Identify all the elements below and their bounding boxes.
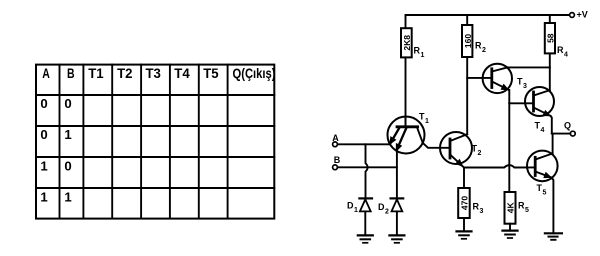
node input A terminal xyxy=(333,142,338,147)
svg-text:R: R xyxy=(475,41,482,51)
wire: R1 to T1 base xyxy=(405,57,407,126)
label T5 xyxy=(537,183,547,197)
ground (D1) xyxy=(358,235,373,242)
svg-text:B: B xyxy=(334,155,341,165)
label R4 xyxy=(557,45,568,59)
ground (R5) xyxy=(503,231,518,238)
wire: R3 to ground xyxy=(463,218,465,231)
svg-text:5: 5 xyxy=(525,207,529,214)
svg-text:5: 5 xyxy=(543,190,547,197)
svg-text:3: 3 xyxy=(523,83,527,90)
diode D2 xyxy=(391,198,404,235)
wire: T2 emitter node to T5 base (hops over R5 wire) xyxy=(464,165,535,167)
svg-text:R: R xyxy=(473,202,480,212)
wire: output Q line xyxy=(552,133,571,135)
truth table row values xyxy=(40,96,71,205)
transistor T3 xyxy=(483,64,512,93)
svg-text:D: D xyxy=(378,202,385,212)
transistor T5 xyxy=(527,151,558,182)
wire: input A to T1 emitter xyxy=(338,143,391,145)
svg-text:T5: T5 xyxy=(203,65,219,81)
wire: T1 second emitter down to D2 xyxy=(396,151,398,199)
svg-text:T1: T1 xyxy=(88,65,104,81)
svg-text:4: 4 xyxy=(541,127,545,134)
label T1 xyxy=(419,112,429,126)
svg-text:R: R xyxy=(518,201,525,211)
truth table grid xyxy=(36,65,274,219)
wire: R2 to T2 collector (node with T3 base) xyxy=(466,57,468,134)
wire: T4 base xyxy=(509,102,533,104)
wire: T3 emitter to T4 base node xyxy=(508,90,510,103)
svg-text:0: 0 xyxy=(40,96,47,111)
svg-text:1: 1 xyxy=(40,190,47,205)
svg-text:T3: T3 xyxy=(146,65,162,81)
wire: input B to D2 node xyxy=(338,166,397,168)
wire: A node down to D1 (hops over B wire) xyxy=(366,144,368,198)
svg-text:R: R xyxy=(557,45,564,55)
svg-text:1: 1 xyxy=(421,52,425,59)
node +V terminal xyxy=(570,13,575,18)
svg-text:1: 1 xyxy=(354,207,358,214)
resistor R5 xyxy=(505,192,516,224)
svg-text:2K8: 2K8 xyxy=(402,35,412,51)
transistor T2 xyxy=(440,132,472,168)
wire: T4 base node down to R5 xyxy=(508,103,510,192)
svg-text:T2: T2 xyxy=(117,65,133,81)
svg-text:1: 1 xyxy=(64,127,71,142)
label R5 xyxy=(518,201,529,215)
label D1 xyxy=(347,201,358,215)
resistor R3 xyxy=(458,188,470,218)
wire: T5 collector up to output node xyxy=(552,134,554,154)
wire: T5 emitter to ground xyxy=(552,178,554,234)
transistor T4 xyxy=(525,87,554,116)
svg-text:2: 2 xyxy=(478,150,482,157)
wire: T1 collector to T2 base xyxy=(423,143,450,148)
node input B terminal xyxy=(333,165,338,170)
transistor T1 (multi-emitter) xyxy=(388,117,425,154)
svg-text:A: A xyxy=(42,65,50,81)
svg-text:0: 0 xyxy=(64,159,71,174)
svg-text:Q(Çıkış): Q(Çıkış) xyxy=(233,65,276,81)
wire: R5 to ground xyxy=(509,224,511,231)
svg-text:4K: 4K xyxy=(505,202,515,214)
resistor R1 xyxy=(401,28,412,57)
svg-text:D: D xyxy=(347,201,354,211)
resistor R2 xyxy=(462,25,472,57)
label R2 xyxy=(475,41,486,55)
svg-text:Q: Q xyxy=(564,121,571,131)
svg-text:1: 1 xyxy=(40,159,47,174)
svg-text:160: 160 xyxy=(463,34,473,48)
svg-text:T4: T4 xyxy=(174,65,190,81)
svg-text:B: B xyxy=(67,65,75,81)
svg-text:1: 1 xyxy=(425,118,429,125)
svg-text:0: 0 xyxy=(64,96,71,111)
ground (T5) xyxy=(545,233,562,240)
svg-text:4: 4 xyxy=(564,52,568,59)
svg-text:R: R xyxy=(414,46,421,56)
wire: rail to R1 xyxy=(405,15,407,28)
wire: T4 emitter down to output node xyxy=(551,116,552,134)
svg-text:0: 0 xyxy=(40,127,47,142)
svg-text:2: 2 xyxy=(482,47,486,54)
resistor R4 xyxy=(545,23,555,53)
wire: rail to R4 xyxy=(549,15,551,23)
node output Q terminal xyxy=(570,131,575,136)
wire: R4 to T4 collector xyxy=(549,53,551,90)
svg-text:+V: +V xyxy=(577,10,588,20)
label R1 xyxy=(414,46,425,60)
svg-text:1: 1 xyxy=(64,190,71,205)
wire: rail to R2 xyxy=(466,15,468,25)
svg-text:2: 2 xyxy=(385,209,389,216)
wire: R3 from T2 emitter node xyxy=(463,168,465,189)
svg-text:3: 3 xyxy=(480,208,484,215)
wire: +V top rail xyxy=(406,14,570,16)
wire: T3 collector to R4 node xyxy=(507,66,549,68)
label D2 xyxy=(378,202,389,216)
label T4 xyxy=(535,121,545,135)
label T2 xyxy=(472,144,482,158)
diode D1 xyxy=(359,198,372,235)
svg-text:58: 58 xyxy=(546,33,556,43)
svg-text:470: 470 xyxy=(459,196,469,210)
truth table header text xyxy=(42,65,275,81)
ground (D2) xyxy=(389,235,404,242)
label T3 xyxy=(517,77,527,91)
wire: T3 base from R2/T2-collector node xyxy=(467,77,492,79)
label R3 xyxy=(473,202,484,216)
ground (R3) xyxy=(457,231,472,238)
